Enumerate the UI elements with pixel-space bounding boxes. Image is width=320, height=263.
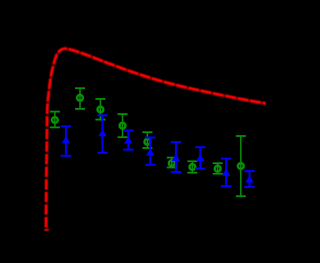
blue point B6 errorbar xyxy=(195,147,205,168)
blue point B5 errorbar xyxy=(171,142,181,172)
red curve end dash xyxy=(44,229,49,231)
red curve bend underlay (soft continuity) xyxy=(47,49,63,107)
green point G2 errorbar xyxy=(75,88,85,109)
green series: open circles with error bars xyxy=(50,88,246,196)
red curve tail underlay (soft continuity) xyxy=(64,49,266,104)
green point G9 errorbar xyxy=(236,136,246,196)
blue point B3 errorbar xyxy=(123,131,133,150)
green point G7 errorbar xyxy=(187,161,197,172)
green point G6 errorbar xyxy=(167,158,177,168)
green point G1 errorbar xyxy=(50,112,60,128)
blue point B7 errorbar xyxy=(221,159,231,187)
blue point B2 errorbar xyxy=(97,115,107,152)
blue point B4 errorbar xyxy=(145,138,155,165)
blue point B8 errorbar xyxy=(244,171,254,187)
green point G4 errorbar xyxy=(118,114,128,137)
blue series: filled triangles with error bars xyxy=(61,115,255,187)
green point G8 errorbar xyxy=(213,163,223,174)
green point G5 errorbar xyxy=(142,132,152,148)
blue point B1 errorbar xyxy=(61,126,71,155)
green point G3 errorbar xyxy=(95,99,105,120)
red dashed model curve: steep rising branch xyxy=(44,49,266,230)
red dashed model curve: decaying tail xyxy=(64,49,266,104)
